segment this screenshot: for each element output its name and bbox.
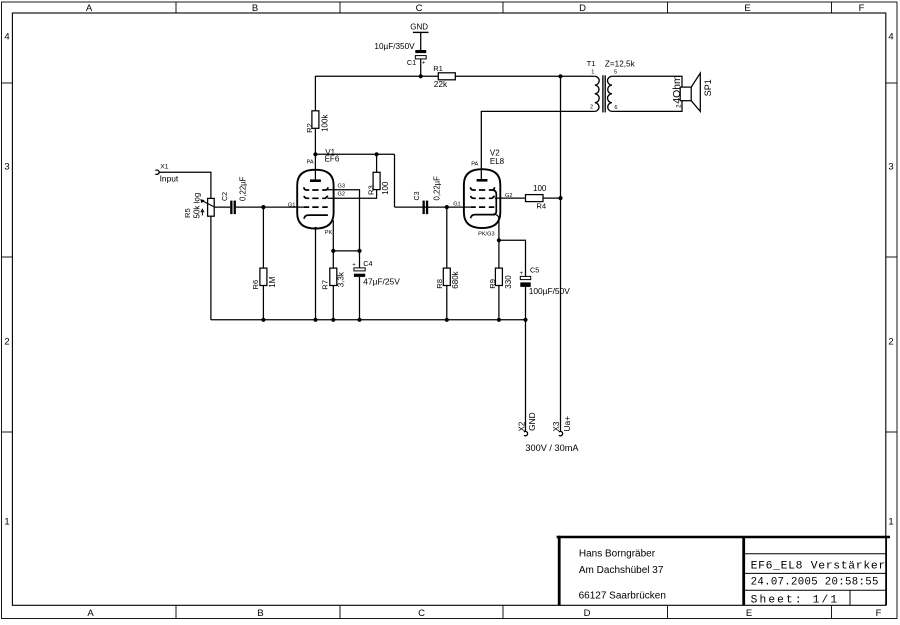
V2 grid G2 row [471, 196, 495, 198]
capacitor C5 [520, 265, 571, 295]
wire R7 bottom lead [332, 286, 334, 320]
wire R9 bottom lead [498, 286, 500, 320]
wire to C3 left plate [395, 206, 431, 208]
svg-text:B: B [252, 3, 258, 14]
connector X3 [552, 416, 572, 436]
svg-text:C4: C4 [363, 259, 372, 268]
wire R9 top lead [498, 240, 500, 268]
wire secondary bottom to speaker [612, 101, 682, 112]
svg-text:1: 1 [591, 70, 594, 76]
title block border [557, 536, 890, 606]
wire V1 anode lead [314, 154, 316, 180]
connector X1 [155, 164, 179, 184]
wire R4 to B+ [543, 197, 561, 199]
svg-text:C1: C1 [407, 58, 416, 67]
svg-text:+: + [520, 271, 524, 277]
svg-text:R3: R3 [366, 185, 375, 195]
svg-text:+: + [422, 60, 426, 66]
svg-text:EF6: EF6 [325, 155, 340, 164]
svg-text:R2: R2 [305, 123, 314, 133]
svg-text:Hans Borngräber: Hans Borngräber [579, 548, 656, 559]
wire B+ vertical (to X3) [560, 76, 562, 431]
wire C4 bottom lead [359, 277, 361, 320]
frame row ticks right [886, 83, 897, 432]
svg-text:F: F [859, 3, 865, 14]
resistor R2 [305, 111, 329, 133]
svg-text:F: F [876, 608, 882, 619]
svg-text:G2: G2 [505, 193, 512, 199]
svg-text:V2: V2 [490, 148, 500, 157]
wire top bus right segment (R1 to transformer) [455, 75, 595, 77]
svg-text:Z=12,5k: Z=12,5k [605, 59, 636, 68]
svg-text:6: 6 [614, 105, 617, 111]
svg-text:Am Dachshübel 37: Am Dachshübel 37 [579, 565, 664, 576]
svg-text:PK: PK [325, 230, 333, 236]
svg-text:R7: R7 [321, 280, 330, 290]
svg-text:C: C [418, 608, 425, 619]
T1 core [602, 75, 604, 112]
connector X2 [517, 412, 537, 436]
V2 anode plate [477, 179, 488, 182]
wire V2 G2 to R4 [495, 197, 526, 199]
svg-text:C: C [416, 3, 423, 14]
ground symbol GND [410, 23, 428, 33]
T1 secondary winding [608, 76, 612, 111]
svg-text:4Ohm: 4Ohm [672, 75, 683, 103]
svg-text:4: 4 [4, 32, 9, 43]
svg-text:G1: G1 [453, 202, 460, 208]
capacitor C4 [352, 259, 400, 287]
V2 grid G3 row with internal cathode strap [471, 187, 497, 214]
frame column labels top [86, 3, 865, 14]
wire C2 to R6 node [236, 206, 264, 208]
svg-text:3: 3 [888, 162, 893, 173]
wire V1 anode node vertical to C3 [394, 154, 396, 207]
wire R7 C4 junction [333, 250, 359, 252]
svg-text:0,22µF: 0,22µF [433, 176, 442, 201]
svg-text:100: 100 [381, 181, 390, 195]
svg-text:PA: PA [471, 162, 478, 168]
tube V1 EF6 [288, 148, 345, 236]
frame row ticks left [2, 83, 13, 432]
capacitor C3 [412, 176, 441, 214]
wire V2 PK lead [495, 214, 499, 240]
frame row labels left [4, 32, 9, 528]
T1 primary winding [595, 76, 599, 111]
transformer T1 [587, 59, 636, 113]
V2 envelope [464, 169, 500, 228]
wire V1 anode node horizontal [315, 153, 394, 155]
svg-text:1: 1 [4, 517, 9, 528]
wire ground bus drop to X2 [525, 320, 527, 432]
svg-text:GND: GND [410, 23, 428, 32]
svg-text:X1: X1 [160, 164, 169, 171]
resistor R6 [251, 268, 277, 289]
junction dots [261, 74, 562, 322]
svg-text:PA: PA [307, 159, 314, 165]
wire R6 bottom lead [262, 286, 264, 320]
resistor R1 [433, 64, 455, 89]
wire V1 PK lead [332, 220, 334, 251]
svg-text:G1: G1 [288, 202, 295, 208]
svg-text:4: 4 [888, 32, 893, 43]
svg-text:100k: 100k [320, 114, 329, 132]
wire top bus left segment (R2 corner to R1) [315, 75, 438, 77]
svg-text:330: 330 [504, 275, 513, 289]
svg-text:A: A [87, 608, 94, 619]
svg-text:2: 2 [675, 104, 682, 108]
svg-text:24.07.2005 20:58:55: 24.07.2005 20:58:55 [751, 577, 879, 589]
wire R3 top lead [376, 154, 378, 172]
svg-text:1M: 1M [268, 276, 277, 287]
svg-text:X3: X3 [552, 421, 561, 431]
wire R2 bottom lead [314, 128, 316, 154]
svg-text:R5: R5 [183, 208, 192, 218]
V2 cathode [471, 215, 495, 219]
svg-text:R9: R9 [488, 279, 497, 289]
svg-text:R6: R6 [251, 280, 260, 290]
svg-text:5: 5 [614, 70, 617, 76]
wire V2 cathode to C5 [499, 240, 526, 276]
V1 grid G1 row [304, 206, 328, 208]
resistor R4 [526, 184, 547, 211]
svg-text:2: 2 [4, 337, 9, 348]
svg-text:+: + [352, 263, 356, 269]
svg-text:B: B [257, 608, 263, 619]
wire C3 to V2 G1 [429, 206, 471, 208]
svg-text:680k: 680k [451, 270, 460, 288]
V1 grid G3 row [304, 187, 328, 190]
svg-text:EL8: EL8 [490, 157, 505, 166]
svg-text:T1: T1 [587, 59, 596, 68]
resistor R8 [435, 268, 460, 289]
wire R8 top lead [446, 207, 448, 268]
tube V2 EL8 [453, 148, 512, 237]
svg-text:R1: R1 [433, 64, 443, 73]
svg-text:0,22µF: 0,22µF [238, 176, 247, 201]
wire C5 bottom lead [525, 287, 527, 320]
svg-text:D: D [584, 608, 591, 619]
svg-text:Input: Input [160, 173, 179, 183]
wire V1 G1 [263, 206, 304, 208]
svg-text:50k log: 50k log [192, 193, 201, 219]
wire V1 shield lead [315, 228, 317, 319]
wire R2 top lead [314, 76, 316, 111]
svg-text:Ua+: Ua+ [562, 416, 572, 432]
svg-text:C2: C2 [220, 192, 229, 201]
svg-text:66127 Saarbrücken: 66127 Saarbrücken [579, 591, 666, 602]
wire pot tap to C2 [214, 206, 230, 208]
V1 shield apex dot [314, 227, 317, 230]
svg-text:2: 2 [888, 337, 893, 348]
resistor R3 [366, 172, 390, 195]
V1 envelope [297, 170, 333, 229]
capacitor C1 [374, 42, 426, 67]
svg-text:47µF/25V: 47µF/25V [363, 277, 400, 287]
frame column ticks bottom [176, 605, 832, 618]
svg-text:G2: G2 [338, 192, 345, 198]
svg-text:100µF/50V: 100µF/50V [529, 286, 571, 296]
svg-text:22k: 22k [434, 79, 448, 89]
potentiometer R5 [183, 193, 214, 219]
frame column labels bottom [87, 608, 881, 619]
svg-text:X2: X2 [517, 421, 526, 431]
svg-text:1: 1 [888, 517, 893, 528]
wire C4 top lead [359, 251, 361, 268]
frame column ticks top [176, 2, 832, 13]
svg-text:100: 100 [533, 184, 547, 193]
svg-text:D: D [579, 3, 586, 14]
svg-text:SP1: SP1 [703, 79, 713, 96]
svg-text:3,3k: 3,3k [337, 271, 346, 287]
svg-text:GND: GND [527, 412, 537, 431]
resistor R9 [488, 268, 513, 289]
wire V1 G2 to R3 [327, 190, 376, 199]
frame row labels right [888, 32, 893, 528]
wire ground bus [211, 319, 526, 321]
svg-text:E: E [746, 608, 752, 619]
speaker SP1 [672, 73, 713, 111]
wire C1 top lead [420, 32, 422, 50]
V1 anode plate [310, 179, 321, 182]
svg-text:C5: C5 [530, 265, 539, 274]
svg-text:E: E [744, 3, 750, 14]
svg-text:300V / 30mA: 300V / 30mA [525, 443, 579, 453]
svg-text:Sheet: 1/1: Sheet: 1/1 [751, 595, 840, 607]
wire transformer pin2 to V2 anode [481, 111, 595, 180]
svg-text:R4: R4 [536, 202, 546, 211]
svg-text:PK/G3: PK/G3 [478, 232, 494, 238]
svg-text:EF6_EL8 Verstärker: EF6_EL8 Verstärker [751, 560, 886, 572]
svg-text:C3: C3 [412, 191, 421, 200]
wire C1 bottom lead [420, 59, 422, 76]
svg-text:3: 3 [4, 162, 9, 173]
wire pot bottom to ground bus [210, 216, 212, 320]
wire R8 bottom lead [446, 286, 448, 320]
wire secondary top to speaker [612, 76, 682, 87]
V2 grid G1 row [471, 206, 495, 208]
svg-text:R8: R8 [435, 279, 444, 289]
V1 grid G2 row [304, 196, 328, 198]
svg-text:G3: G3 [338, 184, 345, 190]
svg-text:10µF/350V: 10µF/350V [374, 42, 415, 51]
wire R6 top lead [262, 207, 264, 268]
capacitor C2 [220, 176, 248, 214]
svg-text:A: A [86, 3, 93, 14]
wire X1 to pot top [159, 172, 211, 198]
wire R7 top lead [332, 251, 334, 268]
resistor R7 [321, 268, 346, 290]
svg-text:2: 2 [590, 104, 593, 110]
wire V1 G3 to C4 node [327, 190, 359, 251]
title block row lines [745, 554, 886, 606]
V1 cathode [304, 215, 328, 219]
